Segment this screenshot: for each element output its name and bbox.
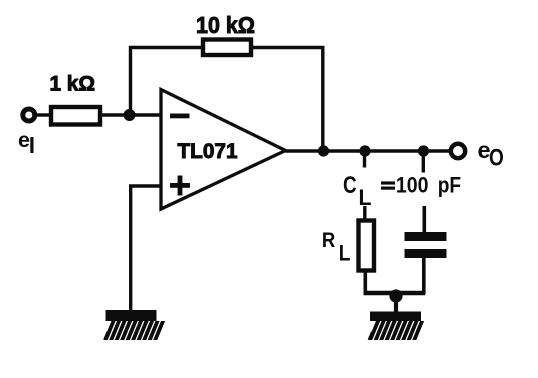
wire R_L bottom lead (363, 271, 367, 295)
label C_L = 100 pF (343, 172, 461, 210)
input terminal e_I (23, 109, 35, 121)
wire feedback rail left segment (129, 46, 203, 49)
resistor R_L (359, 221, 375, 271)
wire node A up to feedback rail (129, 46, 132, 115)
wire feedback rail right segment (251, 46, 324, 49)
wire C_L top lead (422, 206, 426, 232)
wire C_L bottom lead (422, 258, 426, 294)
output terminal e_O (451, 144, 465, 158)
svg-text:L: L (339, 241, 351, 266)
svg-text:TL071: TL071 (178, 140, 238, 163)
wire + input horizontal (129, 184, 161, 187)
resistor R2 10 kΩ (203, 40, 251, 56)
node C R_L junction (359, 145, 370, 156)
wire bottom junction horizontal (364, 291, 426, 295)
svg-text:R: R (322, 229, 335, 252)
ground (right) (368, 312, 424, 341)
node A junction dot (124, 109, 136, 121)
svg-text:10 kΩ: 10 kΩ (196, 12, 255, 38)
wire stub to ground (394, 293, 398, 312)
label e_O (478, 137, 504, 171)
wire op-amp output rail (285, 149, 449, 152)
ground (left) (103, 310, 165, 340)
svg-text:e: e (18, 128, 30, 152)
svg-text:C: C (343, 173, 357, 199)
svg-text:O: O (489, 144, 504, 171)
node D C_L junction (418, 145, 429, 156)
wire + input down to ground (129, 186, 132, 311)
wire node C stub down (363, 151, 366, 168)
svg-text:100: 100 (396, 172, 429, 197)
op-amp non-inverting input marker + (170, 176, 190, 196)
capacitor C_L plates (405, 232, 447, 258)
svg-text:1 kΩ: 1 kΩ (50, 73, 96, 96)
op-amp U1 TL071 (161, 90, 286, 210)
resistor R1 1 kΩ (51, 107, 100, 125)
label R_L (322, 229, 351, 266)
wire node D stub down (422, 151, 425, 173)
wire feedback down to output rail (321, 46, 324, 151)
svg-text:pF: pF (438, 172, 461, 197)
label e_I (18, 128, 34, 153)
wire R1 to node A (100, 113, 161, 116)
node E ground junction (389, 289, 402, 302)
op-amp inverting input marker - (170, 114, 190, 119)
wire R_L top lead (363, 206, 366, 220)
wire input to R1 (35, 113, 50, 116)
node B feedback junction (318, 145, 329, 156)
